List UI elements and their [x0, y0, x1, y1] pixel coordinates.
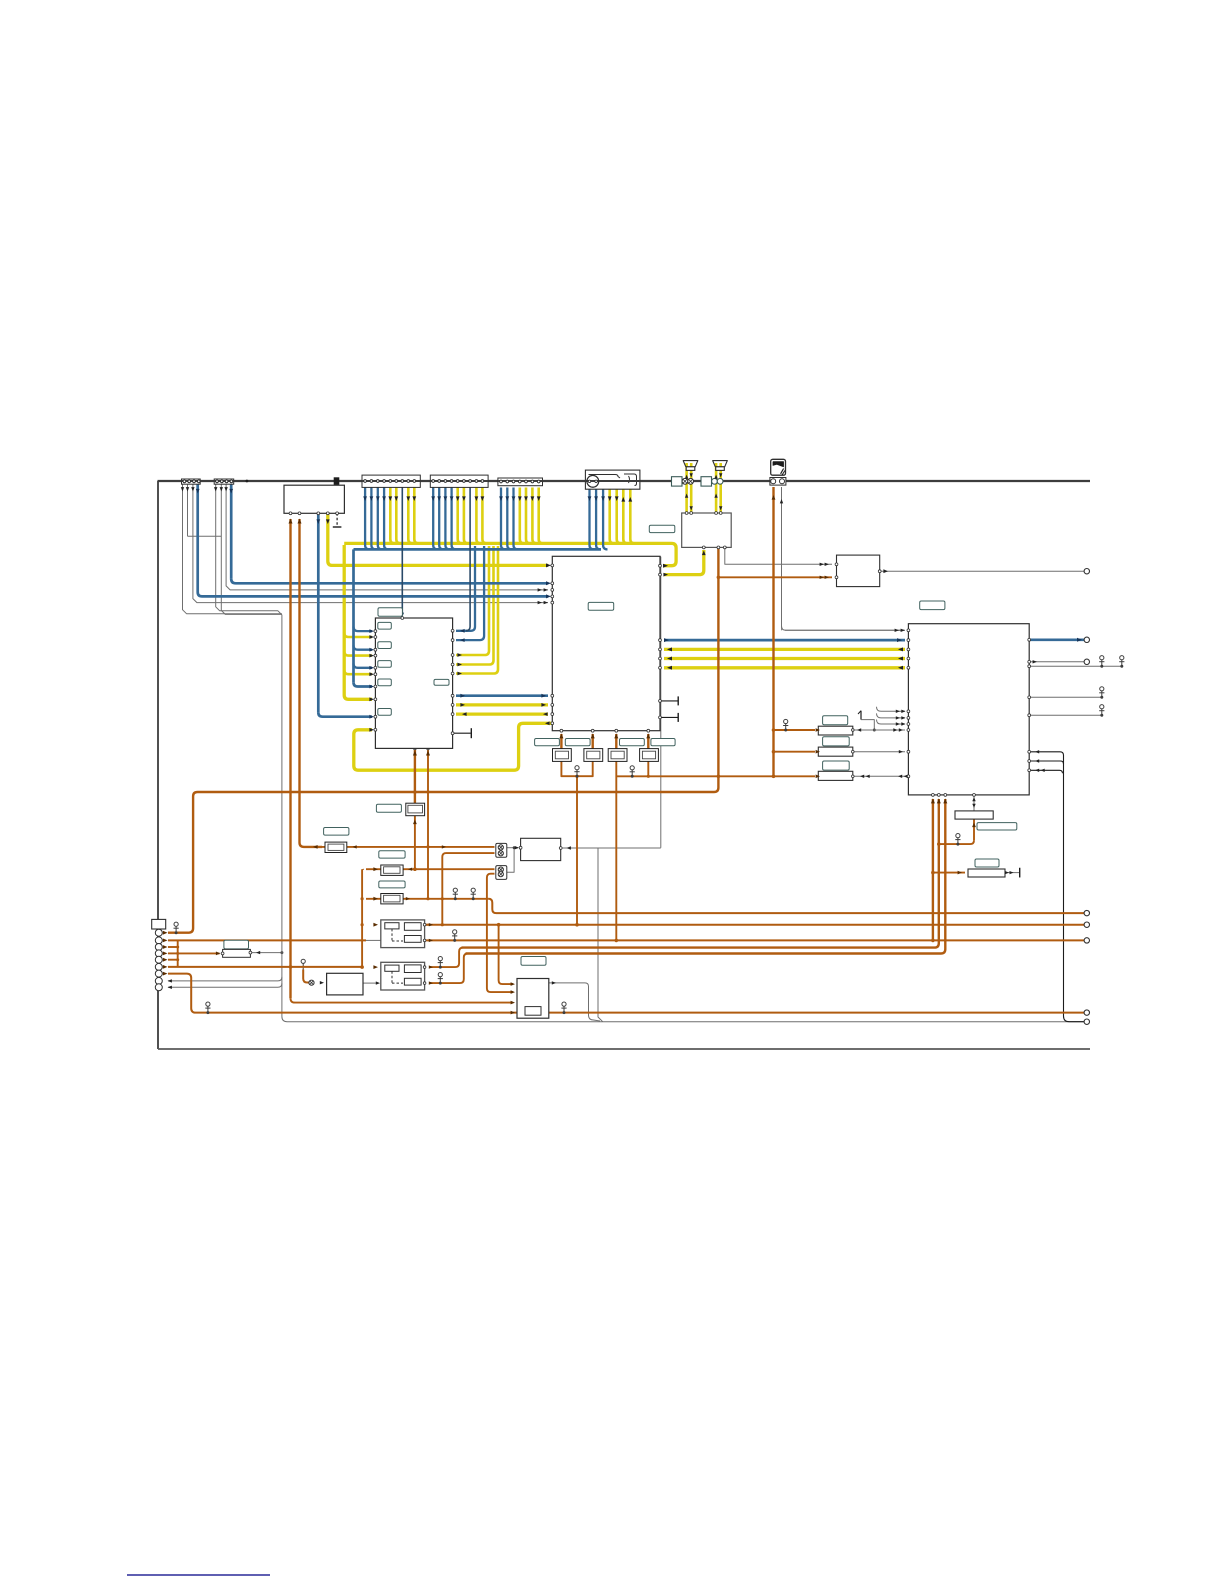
left connector strip cap: [152, 919, 166, 929]
ground stubs right of B5: [1100, 656, 1104, 660]
orange feeder corner into R11: [362, 869, 364, 871]
arrows into B4 left: [546, 563, 551, 567]
left strip arrows orange: [163, 931, 168, 935]
wire B9 output down to gray bottom line: [549, 983, 600, 1021]
wire J1 pin3 dark down to B4: [193, 484, 548, 603]
wire gray split into strip pin 8: [168, 977, 282, 981]
pin circles B4 left: [551, 564, 554, 567]
pin circles M1 M2 right: [423, 923, 426, 926]
card wire arrows: [772, 495, 776, 500]
wire B5 right NC stub 2: [1029, 696, 1102, 698]
orange branch from y924 line down to B9 input1: [497, 923, 501, 927]
ground on R4 drain: [956, 834, 960, 838]
wire J2 pin2 gray: [221, 484, 282, 614]
wire relay R3 output to B5: [853, 775, 905, 777]
orange long line y924 M1 to terminal: [425, 924, 1084, 926]
wire B1 dashed stub to bar: [336, 513, 338, 525]
wire J2 pin3 gray down to B4: [226, 484, 548, 590]
wire J1 pin1 gray: [183, 484, 282, 614]
pin circle B_L top: [401, 617, 404, 620]
ground on M2 output 1: [438, 957, 442, 961]
arrows M1 M2 outputs: [429, 923, 433, 926]
block B5 right IC: [908, 624, 1029, 795]
wire B2 pin gray down-right to box B3: [725, 547, 832, 564]
orange R4 drain: [973, 819, 975, 840]
card connector pins: [770, 478, 786, 486]
relay module M1: [381, 920, 425, 948]
arrows into B9: [511, 982, 515, 986]
speaker 2: [713, 461, 728, 467]
yellow bus right corner down to B4 pin: [664, 543, 676, 565]
orange R12 line right then down to y913 long line: [366, 898, 488, 900]
yellow wire from B1 down and right to B4: [326, 513, 329, 561]
orange R8 R9 verticals: [615, 761, 617, 940]
relay R2 with label: [823, 737, 850, 746]
blue line J2 to B4: [230, 484, 233, 579]
wire B5 right output to terminal (blue row companion): [1029, 661, 1084, 663]
block B7 with label: [224, 940, 249, 949]
block B1 top-center: [284, 485, 344, 513]
relay R4 with label: [955, 811, 993, 819]
blue bus: [354, 548, 602, 551]
block B9 with inner box and label: [521, 957, 546, 966]
arrows B4-B5 rows: [664, 638, 669, 642]
blue line B4 to B5: [664, 639, 905, 642]
pin circles B_L right: [451, 629, 454, 632]
block B2 audio amp: [682, 513, 732, 547]
orange strip pin to B7 line: [178, 952, 220, 954]
connector at B8 input: [309, 980, 314, 985]
orange R11 line to CN2: [366, 868, 495, 870]
arrows B_L right pins: [460, 629, 465, 633]
orange branch B2 line to B3: [717, 576, 721, 580]
connector C3 comb: [362, 475, 420, 487]
arrow into B6: [515, 846, 519, 849]
block B4 main IC: [552, 556, 660, 730]
pin circles B7: [221, 952, 224, 955]
wire B5 left cable row 3: [881, 723, 905, 725]
yellow bus left end down to B_L pins riser: [343, 542, 346, 545]
orange vertical x428 from B_L bottom: [427, 750, 429, 899]
deck mechanism icon: [585, 470, 640, 489]
pin circles relays R1-R3 right: [852, 729, 855, 732]
pin circles B3: [835, 563, 838, 566]
orange CN1 pin2 feeder from y924.7: [441, 857, 443, 925]
wire B4 right ground stub 1: [660, 700, 678, 702]
navy long wire from C4 to B_L right pin: [469, 488, 471, 627]
left strip arrows gray: [168, 979, 172, 982]
inline connector set 1: [672, 477, 683, 486]
yellow drops from deck mechanism: [610, 488, 614, 544]
arrows B5 bottom link: [972, 797, 975, 801]
arrows B_L B4 mid lines: [460, 694, 465, 698]
blue wire from B1 down to B_L: [317, 513, 320, 712]
arrow into B8: [320, 981, 324, 984]
arrows B5 right lines: [1035, 750, 1039, 753]
relay R5 with label: [975, 859, 999, 867]
orange B5 bottom verticals: [932, 799, 934, 940]
blue bus left end riser to B_L pins: [352, 549, 355, 682]
orange long horizontal y792: [168, 792, 714, 933]
orange strip pins cluster feeder: [177, 940, 179, 967]
yellow B4 right pin to B2 bottom: [664, 550, 704, 575]
orange R10 to R11 junction vertical: [414, 816, 416, 870]
orange relay R13 line to CN1: [322, 846, 495, 848]
blue line B5 output to terminal: [1029, 638, 1084, 641]
pin circles B_L left: [374, 630, 377, 633]
wire gray long vertical x282: [281, 615, 283, 1017]
blue drops from deck mechanism: [590, 488, 594, 550]
orange card-connector vertical: [772, 487, 774, 776]
relay R8 with inner: [608, 749, 627, 762]
blue verticals from bus down to B_L right pins: [456, 546, 475, 631]
arrow gray B5 output: [1033, 660, 1037, 663]
diagram frame left border: [157, 481, 159, 1049]
wire B5 left cable row 2: [881, 717, 905, 719]
wire B5 gray input segment: [785, 629, 905, 631]
orange M2 lower output rises to y953 line: [429, 954, 468, 984]
block B_L left IC: [375, 618, 452, 748]
wire B_L twisted pair stub: [453, 732, 471, 734]
diagram frame bottom border: [158, 1048, 1090, 1050]
arrow blue B5 output: [1077, 638, 1082, 642]
arrow into B4 yellow right pin: [663, 564, 668, 568]
pin circles B5 right: [1028, 638, 1031, 641]
arrow R4 feed: [972, 823, 976, 828]
wire crosslink J1-J2: [188, 535, 222, 537]
connector J2: [214, 479, 234, 484]
pin circles B4 bottom: [560, 729, 563, 732]
connector CN1: [496, 843, 507, 857]
wire relay R2 output to B5: [853, 751, 905, 753]
blue line J1 to B4: [196, 484, 199, 592]
orange right end y792 riser to B2: [714, 547, 718, 792]
B_L label above: [378, 608, 402, 617]
wire J1 pin2 gray stub to crosslink: [187, 484, 189, 536]
blue drops from connector C3: [365, 488, 369, 550]
blue drops from connector C5: [501, 488, 505, 550]
orange horizontal relay row R3 / R8 R9 drain: [616, 775, 815, 777]
inline connector set 2: [701, 477, 712, 486]
orange long line y940 strip to terminal: [168, 939, 366, 941]
connector pin circles overlay: [183, 480, 186, 483]
block B3 small: [837, 555, 880, 587]
orange long line y967 strip to M2: [168, 966, 362, 968]
footer link line: [127, 1574, 270, 1576]
wire B4 right ground stub 2: [660, 716, 678, 718]
wire B5 right NC stub 3: [1029, 714, 1102, 716]
yellow speaker wires set 1: [685, 463, 688, 512]
relay R12 with label: [379, 881, 405, 888]
B2 label left: [649, 525, 675, 532]
orange M2 upper output rises to y947 line: [429, 948, 463, 968]
arrows relay rows into B5: [816, 728, 820, 732]
orange R6 R7 bottom link: [561, 761, 592, 776]
blue line B_L to B4: [456, 694, 548, 697]
speaker wire arrows: [685, 475, 688, 479]
wire B5 bottom to relay R4 double-arrow link: [973, 795, 975, 811]
blue riser branches to B_L left pins: [354, 627, 373, 631]
orange wire B1 pin2 vertical to relay R13: [298, 519, 300, 843]
arrow into R13: [313, 845, 318, 849]
ground pair on R12 line: [453, 888, 457, 892]
B_L inner label right: [434, 679, 449, 685]
ground on M1 lower output line: [453, 930, 457, 934]
wire CN1 to B6: [506, 847, 518, 849]
junction block on top bus: [334, 478, 339, 485]
wire J2 pin1 gray: [216, 484, 282, 615]
relay R11 with label: [379, 851, 405, 858]
orange R10 riser from y792: [413, 790, 417, 794]
wire B5 left cable row 1: [881, 710, 905, 712]
card device icon: [771, 459, 786, 475]
block B6: [521, 838, 561, 860]
connector CN2: [496, 866, 507, 880]
relay R3 with label: [823, 761, 850, 770]
arrows into R11 R12 M1 M2: [373, 867, 378, 871]
wire gray branch down from B6 line to bottom gray line: [598, 848, 603, 1022]
connector C4 comb: [430, 475, 488, 487]
B_L pin label boxes: [378, 622, 392, 629]
cable hooks at B5 left: [877, 707, 882, 712]
blue drops from connector C4: [433, 488, 437, 550]
yellow risers into deck mechanism: [623, 489, 627, 543]
orange strip pin7 riser to bottom long line: [168, 974, 1084, 1013]
relay R9 with inner: [640, 749, 659, 762]
wire card-connector gray down to B5: [781, 487, 783, 630]
arrows B3: [825, 563, 829, 566]
wire B6 output line right to gray vertical: [561, 847, 661, 849]
orange M1 outputs: [425, 924, 430, 926]
ground at strip top: [174, 922, 178, 926]
speaker 1: [683, 461, 698, 467]
navy long wire from C3 to B_L top: [401, 488, 403, 615]
ground on bottom long line right: [562, 1002, 566, 1006]
orange wire B1 pin1 long vertical: [289, 519, 291, 998]
pin circles B5 bottom: [932, 794, 935, 797]
pin circles B4 right: [659, 564, 662, 567]
connector C5 comb: [498, 478, 543, 486]
orange R5 feed: [931, 871, 935, 875]
ground on R8R9 drain: [630, 766, 634, 770]
arrow yellow into B2 bottom: [702, 551, 706, 556]
orange branch to relay R2: [772, 750, 776, 754]
orange CN2 pin2 long vertical to B9 input2: [487, 874, 513, 992]
wire relay R1 output to B5: [853, 729, 905, 731]
relay R6 with inner: [553, 749, 572, 762]
arrow R5 feed: [958, 871, 962, 875]
wire B5 right lines to lower-right vertical: [1029, 752, 1084, 1022]
yellow riser branches to B_L left pins: [344, 633, 372, 637]
arrow B9 output: [552, 981, 556, 984]
arrow into B7: [216, 952, 221, 956]
yellow lines B5 to B4 (3): [664, 648, 905, 651]
relay R1 with label: [823, 716, 848, 725]
arrows B_L left pins: [369, 629, 374, 633]
yellow drops from connector C5: [520, 488, 524, 544]
orange feeder vertical x362 for relays: [361, 869, 363, 967]
wire B7 output to gray vertical: [250, 952, 282, 954]
wire B8 ground feed: [301, 959, 305, 963]
ground on bottom long line: [206, 1002, 210, 1006]
block B8: [327, 973, 363, 995]
connector J1: [182, 479, 201, 484]
junction dot on top bus: [246, 480, 249, 483]
wire gray split into strip pin 9: [168, 983, 282, 987]
yellow verticals from bus to B_L right pins: [456, 546, 489, 655]
yellow drops from connector C3: [390, 488, 394, 544]
switch bracket symbol near B5: [860, 711, 862, 720]
arrows into B1: [289, 519, 293, 524]
yellow loop B4 to B_L lower: [354, 723, 553, 770]
wire B5 right NC stub 1: [1029, 665, 1122, 667]
ground on M2 output 2: [438, 973, 442, 977]
pin circles B5 left: [907, 629, 910, 632]
label near B5 top: [920, 601, 945, 610]
relay R13 with label: [324, 828, 349, 836]
ground on R6R7 drain: [575, 766, 579, 770]
terminal circles right: [1084, 569, 1089, 574]
relay module M2: [381, 962, 425, 990]
yellow speaker wires set 2: [715, 463, 718, 512]
relay labels under B4: [535, 739, 560, 746]
yellow B_L to B4 mid pair: [456, 703, 548, 706]
pin circles B1 bottom: [289, 512, 292, 515]
left connector strip circles: [155, 929, 162, 936]
wire relay R5 to ground bar: [1005, 872, 1016, 874]
wire box B3 output to terminal: [880, 570, 1084, 572]
deck mechanism circle overlay: [587, 475, 599, 487]
arrow on R13-CN1 line: [442, 845, 446, 848]
ground on R1 feed: [784, 719, 788, 723]
arrows gray row into B5: [895, 629, 899, 632]
orange R6R7 drain vertical to y924.7: [576, 776, 578, 925]
diagram frame top bus line: [158, 480, 1091, 482]
orange branch to relay R1: [772, 728, 776, 732]
orange relay feeds up into B4 bottom: [560, 734, 562, 749]
bus line overlay across connectors: [182, 480, 234, 482]
yellow bus: [344, 542, 671, 545]
B4 inner label: [588, 602, 614, 610]
relay R7 with inner: [584, 749, 603, 762]
pin circles B6: [519, 846, 522, 849]
wire strip line to M1 lower coil: [366, 939, 381, 941]
relay R10 with label: [376, 804, 401, 812]
arrows R11 R12 outputs: [408, 868, 412, 871]
yellow drops from connector C4: [458, 488, 462, 544]
wire CN2 to CN1 line riser: [506, 848, 514, 873]
pin circles B2: [685, 512, 688, 515]
arrows cable rows into B5: [896, 710, 900, 713]
wire B8 output to M2: [363, 982, 378, 984]
wire gray vertical from B4 corner down: [659, 557, 662, 848]
